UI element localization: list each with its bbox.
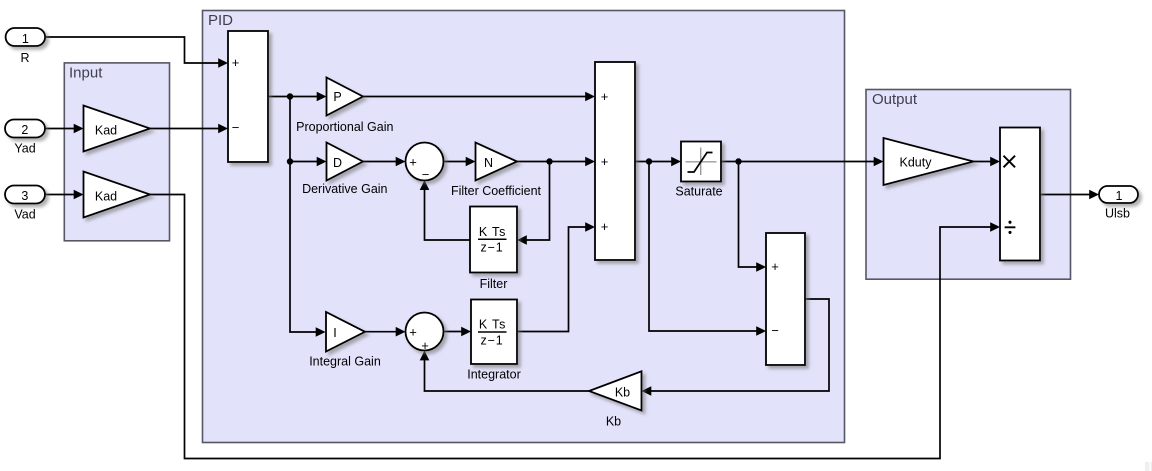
junction dot Sum1 output <box>287 93 293 99</box>
svg-text:Output: Output <box>872 91 918 108</box>
svg-text:Integrator: Integrator <box>467 368 521 382</box>
svg-text:Input: Input <box>69 65 103 82</box>
sum circle integrator sum <box>406 313 444 351</box>
wire Sum3 branch to Sum4 minus <box>649 162 766 336</box>
svg-text:PID: PID <box>208 12 233 29</box>
wire gain I to integrator sum circle <box>365 327 406 337</box>
gain Kb <box>589 371 642 410</box>
wire N to Sum3 second input <box>517 157 595 167</box>
svg-text:+: + <box>771 259 779 274</box>
inport 1 R <box>6 28 46 46</box>
wire Product to outport <box>1040 190 1099 200</box>
wire Saturate branch to Sum4 plus <box>739 162 767 272</box>
svg-text:K Ts: K Ts <box>479 225 506 239</box>
svg-text:1: 1 <box>22 32 29 46</box>
svg-text:Kad: Kad <box>95 189 117 203</box>
junction dot Sum3 output <box>646 158 652 164</box>
svg-text:K Ts: K Ts <box>479 318 506 332</box>
svg-text:N: N <box>484 156 493 170</box>
wire Kb to integrator sum circle <box>420 351 589 391</box>
svg-text:+: + <box>601 89 609 104</box>
sum block Sum3 <box>595 62 635 260</box>
svg-text:Derivative Gain: Derivative Gain <box>302 182 387 196</box>
svg-text:1: 1 <box>1116 189 1123 203</box>
junction dot D branch <box>287 158 293 164</box>
svg-text:Proportional Gain: Proportional Gain <box>296 120 393 134</box>
wire port2 to Kad1 <box>45 124 84 134</box>
wire Kduty to Product times input <box>974 157 1001 167</box>
gain Kad1 <box>84 106 151 152</box>
gain Kad2 <box>84 172 151 218</box>
svg-text:+: + <box>421 338 429 353</box>
saturation block Saturate <box>681 142 721 182</box>
wire Filter block to filter sum minus <box>420 180 470 240</box>
wire Sum1 to gain P <box>268 92 327 102</box>
gain Kduty <box>884 138 974 185</box>
wire filter sum to gain N <box>443 157 476 167</box>
wire integrator sum to Integrator block <box>444 327 472 337</box>
wire R to Sum1 plus input <box>46 37 228 68</box>
svg-text:−: − <box>422 167 430 182</box>
wire Saturate to gain Kduty <box>721 157 884 167</box>
svg-text:Saturate: Saturate <box>675 185 722 199</box>
svg-text:D: D <box>333 156 342 170</box>
svg-text:+: + <box>409 155 417 170</box>
gain N <box>476 143 518 181</box>
svg-text:+: + <box>601 154 609 169</box>
wire Sum3 to Saturate <box>635 157 681 167</box>
svg-text:R: R <box>20 51 29 65</box>
wire N branch to Filter block input <box>517 162 550 245</box>
svg-text:Yad: Yad <box>14 142 35 156</box>
wire P to Sum3 first input <box>363 92 595 102</box>
svg-text:3: 3 <box>21 189 28 203</box>
inport 2 Yad <box>5 120 45 138</box>
gain D <box>327 143 364 181</box>
subsystem box PID <box>203 11 845 443</box>
svg-text:Kduty: Kduty <box>900 155 933 169</box>
sum block Sum1 <box>228 31 268 162</box>
svg-text:2: 2 <box>21 123 28 137</box>
svg-text:z−1: z−1 <box>481 333 504 347</box>
svg-text:+: + <box>601 219 609 234</box>
svg-text:Filter Coefficient: Filter Coefficient <box>451 184 542 198</box>
sum circle filter sum <box>406 143 444 181</box>
svg-text:Kb: Kb <box>606 414 621 428</box>
product block Divide <box>1000 128 1040 261</box>
svg-text:P: P <box>333 90 341 104</box>
junction dot N output <box>546 158 552 164</box>
junction dot Saturate output <box>735 158 741 164</box>
wire Sum4 to gain Kb <box>642 299 830 396</box>
sum block Sum4 <box>766 233 805 365</box>
discrete block Integrator <box>471 300 517 365</box>
svg-text:Kad: Kad <box>95 123 117 137</box>
svg-text:−: − <box>771 323 779 338</box>
scrollbar corner artifact <box>1145 462 1149 471</box>
wire D to filter sum circle <box>363 157 406 167</box>
inport 3 Vad <box>5 186 45 204</box>
outport 1 Ulsb <box>1099 186 1138 203</box>
wire Kad1 to Sum1 minus input <box>150 124 228 134</box>
svg-text:Kb: Kb <box>615 385 630 399</box>
gain I <box>326 312 365 352</box>
svg-text:+: + <box>232 55 240 70</box>
svg-text:+: + <box>409 325 417 340</box>
svg-text:z−1: z−1 <box>481 240 504 254</box>
discrete block Filter <box>470 207 517 273</box>
wire branch to gain D <box>290 157 327 167</box>
svg-text:I: I <box>333 326 336 340</box>
svg-text:Ulsb: Ulsb <box>1105 207 1130 221</box>
svg-text:−: − <box>232 120 240 135</box>
svg-text:Filter: Filter <box>480 277 508 291</box>
svg-text:Integral Gain: Integral Gain <box>309 355 381 369</box>
wire port3 to Kad2 <box>45 190 84 200</box>
subsystem box Input <box>64 63 169 241</box>
subsystem box Output <box>866 90 1071 280</box>
gain P <box>327 78 364 116</box>
wire branch down to D and I <box>290 97 326 337</box>
wire Integrator to Sum3 third input <box>517 222 595 331</box>
wire Vad feedforward to Product divide input <box>150 195 1000 459</box>
svg-text:Vad: Vad <box>14 208 35 222</box>
